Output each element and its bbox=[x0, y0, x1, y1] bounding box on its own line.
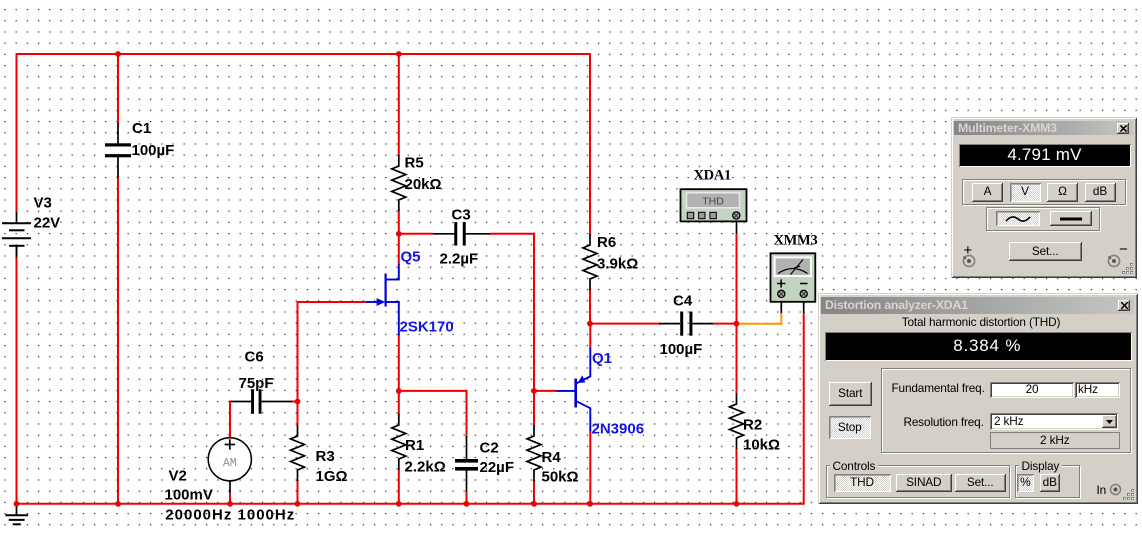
close button bbox=[1118, 300, 1130, 311]
svg-text:R3: R3 bbox=[316, 448, 335, 465]
percent button (pressed) bbox=[1017, 474, 1035, 492]
svg-text:XMM3: XMM3 bbox=[774, 233, 818, 249]
Controls group frame bbox=[826, 465, 1010, 498]
wire R3 bottom bbox=[297, 480, 299, 505]
source V2 (AM) bbox=[208, 438, 251, 481]
waveform group frame bbox=[986, 207, 1100, 231]
distortion analyzer window XDA1 bbox=[818, 293, 1138, 504]
button A bbox=[972, 183, 1003, 202]
resistor R1 bbox=[392, 414, 406, 470]
wire V2 bottom bbox=[229, 481, 231, 494]
wire C3 left lead bbox=[399, 233, 433, 235]
ground bbox=[16, 504, 18, 516]
svg-text:3.9kΩ: 3.9kΩ bbox=[597, 256, 638, 273]
capacitor C1 bbox=[117, 123, 119, 146]
In terminal bbox=[1109, 483, 1122, 496]
junction R4 bottom bbox=[531, 501, 537, 507]
resolution freq label bbox=[904, 415, 984, 429]
resolution combo bbox=[990, 413, 1118, 430]
junction R6/C4 node bbox=[587, 321, 593, 327]
resistor R5 bbox=[392, 155, 406, 211]
wire node to C2 bbox=[398, 390, 467, 392]
transistor Q5 (JFET) bbox=[398, 264, 400, 280]
svg-text:10kΩ: 10kΩ bbox=[743, 437, 780, 454]
button DC bbox=[1050, 211, 1092, 226]
In label bbox=[1097, 483, 1107, 497]
wire R4 bottom bbox=[533, 480, 535, 505]
instrument icon XDA1 bbox=[681, 189, 747, 221]
wire R2 bottom bbox=[736, 448, 738, 505]
wire left rail lower (V3 bottom) bbox=[16, 247, 18, 505]
wire C6 right lead bbox=[261, 401, 294, 403]
svg-text:75pF: 75pF bbox=[239, 375, 274, 392]
wire C4 right lead bbox=[693, 323, 715, 325]
wire V2 top bbox=[229, 401, 231, 438]
resistor R4 bbox=[527, 425, 541, 481]
Stop button (pressed) bbox=[829, 416, 872, 439]
SINAD button bbox=[896, 474, 953, 492]
capacitor C6 bbox=[251, 389, 254, 414]
resolution result box bbox=[990, 432, 1120, 449]
svg-text:100µF: 100µF bbox=[132, 142, 175, 159]
svg-text:C4: C4 bbox=[673, 293, 693, 310]
wire gate branch down bbox=[297, 301, 299, 403]
wire node to R4 bbox=[533, 391, 535, 426]
svg-text:20000Hz 1000Hz: 20000Hz 1000Hz bbox=[165, 507, 295, 524]
wire R5 branch top bbox=[398, 53, 400, 156]
svg-text:2.2µF: 2.2µF bbox=[440, 251, 479, 268]
svg-text:C1: C1 bbox=[132, 120, 151, 137]
capacitor C4 bbox=[680, 312, 683, 336]
svg-text:C6: C6 bbox=[245, 349, 264, 366]
fundamental freq field bbox=[990, 382, 1074, 399]
wire XMM3 plus orange bbox=[780, 313, 782, 325]
wire C2 top lead bbox=[466, 436, 468, 459]
multimeter reading display bbox=[956, 141, 1134, 170]
fundamental freq label bbox=[892, 381, 985, 395]
wire R3 top bbox=[297, 402, 299, 427]
wire R5 to node bbox=[398, 210, 400, 235]
wire C1 branch bottom bbox=[117, 176, 119, 504]
wire C4 left lead bbox=[589, 323, 661, 325]
plus sign bbox=[964, 242, 973, 259]
THD reading display bbox=[822, 329, 1135, 364]
wire Q1 collector down bbox=[589, 430, 591, 505]
svg-text:1GΩ: 1GΩ bbox=[316, 468, 348, 485]
settings group frame bbox=[881, 368, 1131, 453]
wire node to R1 bbox=[398, 391, 400, 415]
svg-text:R6: R6 bbox=[597, 234, 616, 251]
wire base node to Q1 bbox=[533, 390, 557, 392]
THD button (pressed) bbox=[834, 474, 891, 492]
junction C1 top bbox=[115, 51, 121, 57]
wire Q5 source to node bbox=[398, 334, 400, 392]
junction R4/base node bbox=[531, 388, 537, 394]
svg-text:C2: C2 bbox=[480, 440, 499, 457]
resize grip bbox=[1122, 263, 1134, 275]
instrument icon XMM3 bbox=[771, 253, 816, 301]
capacitor C3 bbox=[454, 222, 457, 246]
junction C4/XDA1/R2 node bbox=[734, 321, 740, 327]
wire bottom rail bbox=[17, 503, 804, 505]
combo arrow button bbox=[1102, 415, 1117, 428]
mode group frame bbox=[962, 179, 1126, 205]
kHz unit field bbox=[1075, 382, 1120, 399]
resistor R6 bbox=[583, 234, 597, 290]
svg-text:50kΩ: 50kΩ bbox=[542, 469, 579, 486]
Start button bbox=[829, 382, 873, 406]
dB button bbox=[1040, 474, 1061, 492]
junction Q1 bottom bbox=[587, 501, 593, 507]
junction R2 bottom bbox=[734, 501, 740, 507]
wire C1 branch top bbox=[117, 53, 119, 124]
minus sign bbox=[1119, 241, 1128, 258]
junction R1 bottom bbox=[396, 501, 402, 507]
THD caption bbox=[824, 315, 1138, 329]
svg-text:22V: 22V bbox=[34, 215, 61, 232]
button ohm bbox=[1047, 183, 1078, 202]
Set button bbox=[1009, 242, 1082, 261]
junction ground bottom bbox=[14, 501, 20, 507]
junction C2 bottom bbox=[464, 501, 470, 507]
wire C2 bottom lead bbox=[466, 471, 468, 494]
svg-text:100mV: 100mV bbox=[165, 487, 213, 504]
svg-text:V2: V2 bbox=[169, 468, 187, 485]
right terminal bbox=[1106, 254, 1124, 268]
wire C6 left lead bbox=[230, 401, 253, 403]
svg-text:Q1: Q1 bbox=[592, 350, 612, 367]
wire node to Q5 drain bbox=[398, 234, 400, 265]
button AC (pressed) bbox=[996, 211, 1040, 226]
button V (pressed) bbox=[1010, 183, 1041, 202]
resize grip bbox=[1123, 489, 1135, 501]
svg-text:100µF: 100µF bbox=[660, 341, 703, 358]
wire C3 right lead bbox=[466, 233, 493, 235]
svg-text:V3: V3 bbox=[34, 195, 52, 212]
wire XMM3 plus lead bbox=[780, 298, 782, 315]
wire C3 branch down bbox=[533, 233, 535, 392]
junction R5 top bbox=[396, 51, 402, 57]
svg-text:AM: AM bbox=[223, 457, 237, 470]
wire XDA1 down to node bbox=[736, 234, 738, 325]
wire node to Q1 emitter bbox=[589, 324, 591, 349]
wire XDA1 terminal lead bbox=[736, 220, 738, 236]
svg-text:22µF: 22µF bbox=[480, 459, 515, 476]
svg-text:2.2kΩ: 2.2kΩ bbox=[405, 459, 446, 476]
wire Q5 gate bbox=[298, 301, 368, 303]
multimeter window XMM3 bbox=[951, 117, 1137, 279]
Set button bbox=[955, 474, 1007, 492]
wire node to R2 bbox=[736, 324, 738, 394]
close button bbox=[1117, 123, 1129, 134]
wire XMM3 minus down bbox=[803, 313, 805, 505]
svg-text:C3: C3 bbox=[452, 207, 471, 224]
svg-text:2N3906: 2N3906 bbox=[592, 421, 645, 438]
battery V3 bbox=[16, 212, 18, 224]
transistor Q1 (PNP) bbox=[574, 379, 577, 408]
resistor R3 bbox=[291, 425, 305, 481]
svg-text:2SK170: 2SK170 bbox=[400, 319, 454, 336]
svg-text:THD: THD bbox=[702, 196, 724, 208]
junction C1 bottom bbox=[115, 501, 121, 507]
svg-text:R1: R1 bbox=[405, 437, 424, 454]
wire R1 bottom bbox=[398, 469, 400, 505]
Display group frame bbox=[1015, 465, 1080, 498]
junction R5/C3/Q5 node bbox=[396, 231, 402, 237]
wire left rail upper (V3 top) bbox=[16, 53, 18, 214]
button dB bbox=[1085, 183, 1116, 202]
junction R3 bottom bbox=[295, 501, 301, 507]
svg-text:XDA1: XDA1 bbox=[694, 168, 732, 184]
svg-text:R2: R2 bbox=[743, 417, 762, 434]
svg-text:20kΩ: 20kΩ bbox=[405, 176, 442, 193]
wire R6 branch top bbox=[589, 53, 591, 235]
resistor R2 bbox=[730, 393, 744, 449]
junction V2 bottom bbox=[227, 501, 233, 507]
svg-text:R5: R5 bbox=[405, 155, 424, 172]
svg-text:Q5: Q5 bbox=[401, 249, 421, 266]
wire R6 to node bbox=[589, 289, 591, 325]
junction Q5 source node bbox=[396, 388, 402, 394]
wire top rail bbox=[17, 53, 591, 55]
wire XMM3 minus lead bbox=[803, 298, 805, 315]
svg-text:R4: R4 bbox=[542, 449, 562, 466]
junction C6/R3 node bbox=[295, 399, 301, 405]
capacitor C2 bbox=[455, 459, 478, 463]
left terminal bbox=[961, 254, 979, 268]
